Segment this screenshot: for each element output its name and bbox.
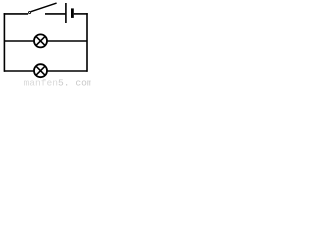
wire top left segment [4, 13, 29, 15]
wire right vertical [86, 13, 88, 72]
wire middle branch left [4, 40, 34, 42]
svg-text:manfen5. com: manfen5. com [24, 78, 92, 87]
wire left vertical [3, 13, 5, 72]
wire battery to right corner [74, 13, 88, 15]
lamp L1 circle [34, 34, 47, 47]
wire between switch and battery [45, 13, 65, 15]
switch S1 lever (open) [31, 3, 57, 12]
wire middle branch right [48, 40, 88, 42]
wire bottom left [4, 70, 34, 72]
battery cell short plate (-) [71, 8, 74, 18]
switch S1 pivot contact [29, 11, 31, 13]
lamp L2 cross stroke 1 [36, 66, 45, 75]
lamp L2 cross stroke 2 [36, 66, 45, 75]
lamp L1 cross stroke 1 [36, 36, 45, 45]
lamp L1 cross stroke 2 [36, 36, 45, 45]
lamp L2 circle [34, 64, 47, 77]
wire bottom right [48, 70, 88, 72]
battery cell long plate (+) [65, 3, 67, 23]
